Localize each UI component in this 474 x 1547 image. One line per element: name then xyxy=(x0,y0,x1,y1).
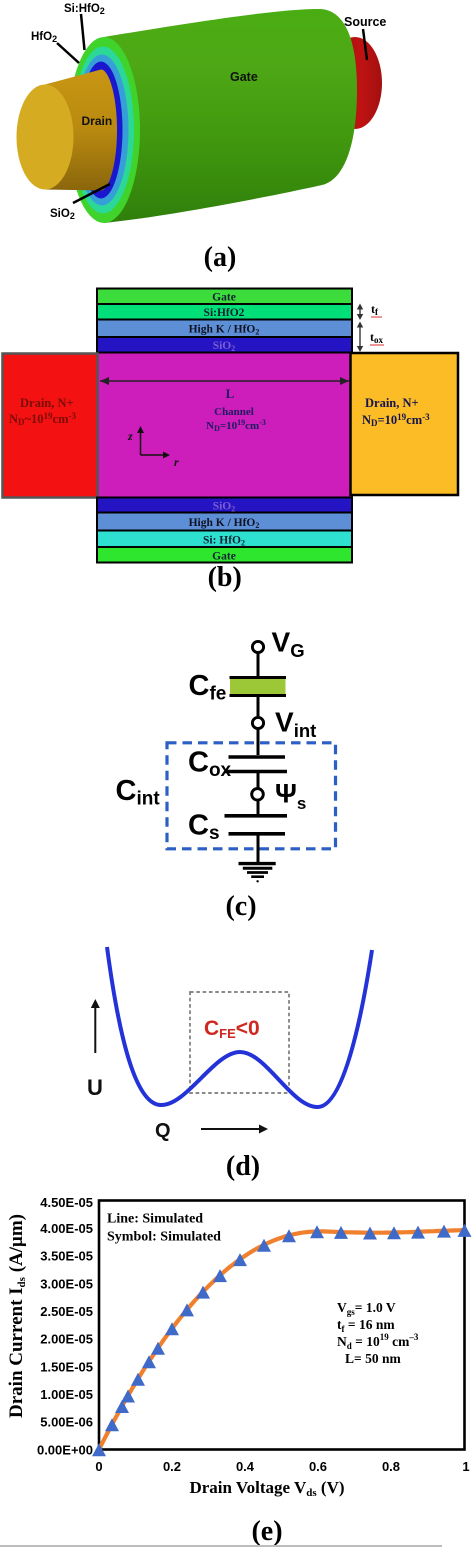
Si:HfO2 layer top xyxy=(97,304,352,320)
svg-text:Drain, N+: Drain, N+ xyxy=(20,396,74,410)
svg-text:Source: Source xyxy=(344,15,386,29)
wire Cox to Psi node xyxy=(257,772,260,789)
drain N+ left (red) xyxy=(3,354,98,498)
svg-text:(a): (a) xyxy=(204,242,237,273)
svg-text:CFE<0: CFE<0 xyxy=(204,1017,260,1041)
svg-text:2.00E-05: 2.00E-05 xyxy=(40,1332,93,1347)
simulated symbols (blue triangles) xyxy=(92,1224,472,1456)
node Vint xyxy=(252,717,263,728)
svg-text:Cint: Cint xyxy=(116,775,161,810)
svg-text:L= 50 nm: L= 50 nm xyxy=(345,1351,401,1366)
svg-text:Drain: Drain xyxy=(82,114,113,128)
gate cylinder body xyxy=(104,9,357,223)
svg-text:High K / HfO2: High K / HfO2 xyxy=(189,517,260,530)
svg-text:(d): (d) xyxy=(226,1151,260,1182)
svg-text:4.50E-05: 4.50E-05 xyxy=(40,1195,93,1210)
annotation xyxy=(337,1300,419,1366)
y tick labels xyxy=(37,1195,93,1457)
wire VG to Cfe xyxy=(257,653,260,676)
SiO2 layer bottom xyxy=(97,498,352,513)
svg-text:Vint: Vint xyxy=(275,707,316,742)
svg-text:Si: HfO2: Si: HfO2 xyxy=(203,535,245,548)
svg-text:3.00E-05: 3.00E-05 xyxy=(40,1276,93,1291)
drain cylinder body (gold) xyxy=(45,70,117,191)
capacitor Cfe (ferroelectric) xyxy=(230,679,286,695)
dashed box Cint xyxy=(167,743,336,849)
svg-text:1.00E-05: 1.00E-05 xyxy=(40,1387,93,1402)
svg-text:Cfe: Cfe xyxy=(189,670,227,705)
svg-text:2.50E-05: 2.50E-05 xyxy=(40,1304,93,1319)
L arrow xyxy=(100,380,349,382)
wire Psi to Cs xyxy=(257,800,260,815)
svg-text:tox: tox xyxy=(370,330,384,345)
bottom gray rule xyxy=(0,1545,442,1547)
tox arrow xyxy=(359,324,361,350)
High K layer top xyxy=(97,320,352,338)
svg-text:0.2: 0.2 xyxy=(163,1459,181,1474)
svg-text:Drain Voltage Vds (V): Drain Voltage Vds (V) xyxy=(189,1478,344,1499)
svg-text:z: z xyxy=(127,429,133,443)
svg-text:0.6: 0.6 xyxy=(309,1459,327,1474)
svg-text:5.00E-06: 5.00E-06 xyxy=(40,1415,93,1430)
svg-text:Cs: Cs xyxy=(188,810,220,845)
svg-text:0.4: 0.4 xyxy=(236,1459,255,1474)
gate layer bottom xyxy=(97,547,352,563)
svg-text:4.00E-05: 4.00E-05 xyxy=(40,1221,93,1236)
source (red) end cap xyxy=(328,37,382,129)
svg-text:1.50E-05: 1.50E-05 xyxy=(40,1359,93,1374)
svg-text:Nd = 1019 cm–3: Nd = 1019 cm–3 xyxy=(337,1332,419,1351)
node VG terminal xyxy=(252,641,263,652)
svg-text:Q: Q xyxy=(155,1120,171,1142)
svg-text:Cox: Cox xyxy=(188,747,232,782)
svg-text:tf: tf xyxy=(371,302,379,317)
svg-text:1: 1 xyxy=(462,1459,469,1474)
svg-text:r: r xyxy=(174,455,179,469)
drain N+ right (orange) xyxy=(351,353,459,495)
svg-text:VG: VG xyxy=(272,627,305,662)
simulated line (orange) xyxy=(99,1230,464,1449)
wire Cfe to Vint xyxy=(257,694,260,717)
gate face ring (green) xyxy=(68,37,140,223)
svg-text:(b): (b) xyxy=(208,562,242,593)
wire Cs to ground xyxy=(257,834,260,862)
drain face xyxy=(17,85,74,190)
ground xyxy=(239,862,276,865)
svg-text:Gate: Gate xyxy=(212,292,236,304)
svg-text:Drain, N+: Drain, N+ xyxy=(365,396,419,410)
High K layer bottom xyxy=(97,513,352,531)
dashed box xyxy=(190,992,289,1093)
channel block xyxy=(97,353,352,498)
Si:HfO2 layer bottom xyxy=(97,531,352,548)
energy curve xyxy=(107,947,372,1107)
svg-text:Line: Simulated: Line: Simulated xyxy=(107,1212,203,1227)
plot frame xyxy=(99,1201,465,1450)
svg-text:L: L xyxy=(226,386,235,401)
svg-text:U: U xyxy=(87,1075,103,1100)
svg-text:Si:HfO2: Si:HfO2 xyxy=(204,307,245,319)
svg-text:SiO2: SiO2 xyxy=(50,208,75,221)
svg-text:0: 0 xyxy=(95,1459,102,1474)
tf arrow xyxy=(359,306,361,318)
svg-text:HfO2: HfO2 xyxy=(31,31,57,44)
node Psi_s xyxy=(252,789,264,801)
svg-text:3.50E-05: 3.50E-05 xyxy=(40,1249,93,1264)
SiO2 ring (dark blue) xyxy=(80,62,123,199)
Si:HfO2 ring (teal) xyxy=(72,47,134,214)
svg-text:0.8: 0.8 xyxy=(382,1459,400,1474)
svg-text:(e): (e) xyxy=(251,1516,282,1547)
svg-text:0.00E+00: 0.00E+00 xyxy=(37,1442,93,1457)
svg-text:Vgs= 1.0 V: Vgs= 1.0 V xyxy=(337,1300,396,1317)
Q axis arrow xyxy=(201,1128,264,1130)
svg-text:Ψs: Ψs xyxy=(275,779,306,814)
svg-text:Gate: Gate xyxy=(230,70,258,84)
x tick labels xyxy=(95,1459,469,1474)
capacitor Cs xyxy=(225,814,288,818)
svg-text:Si:HfO2: Si:HfO2 xyxy=(64,3,105,16)
svg-text:Drain Current Ids (A/μm): Drain Current Ids (A/μm) xyxy=(6,1214,28,1418)
svg-text:Channel: Channel xyxy=(214,406,254,418)
gate layer top xyxy=(97,289,352,305)
HfO2 ring (light blue) xyxy=(76,55,129,206)
svg-text:(c): (c) xyxy=(225,891,256,922)
wire Vint to Cox xyxy=(257,729,260,755)
U axis arrow xyxy=(94,1003,96,1053)
svg-text:Symbol: Simulated: Symbol: Simulated xyxy=(107,1230,221,1245)
svg-text:Gate: Gate xyxy=(212,551,236,563)
capacitor Cox xyxy=(229,755,286,759)
SiO2 layer top xyxy=(97,337,352,353)
svg-text:High K / HfO2: High K / HfO2 xyxy=(189,324,260,337)
z r axes xyxy=(140,428,142,455)
